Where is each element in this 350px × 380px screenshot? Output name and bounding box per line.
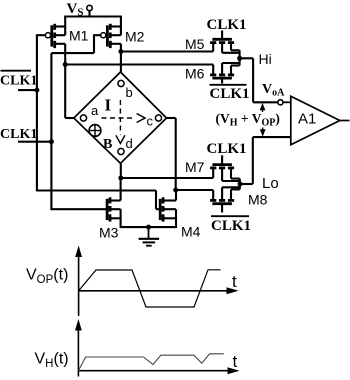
- junction node d / M3 drain: [118, 176, 123, 181]
- current arrow I (dashed cross): [102, 96, 146, 144]
- wire M2 drain to node b: [120, 44, 122, 73]
- transistor M1 (PMOS): [45, 16, 88, 49]
- junction M1 drain / M6 rail: [63, 62, 68, 67]
- wire M2 gate to CLK1 vertical: [51, 34, 100, 210]
- svg-text:Hi: Hi: [259, 51, 272, 67]
- svg-text:B: B: [103, 137, 112, 152]
- wire M1 gate to CLK1bar vertical: [37, 34, 46, 191]
- transistor M2 (PMOS): [101, 16, 145, 49]
- svg-text:t: t: [232, 272, 237, 291]
- svg-text:c: c: [147, 114, 154, 129]
- waveform VOP: [79, 270, 221, 307]
- svg-text:M7: M7: [185, 159, 205, 175]
- waveform VH: [78, 354, 223, 371]
- transistor M4 (NMOS): [160, 190, 200, 240]
- node a: [80, 103, 99, 121]
- transistor M6 (pass switch): [185, 58, 240, 83]
- svg-text:CLK1: CLK1: [207, 141, 247, 157]
- transistor M8 (pass switch): [210, 184, 268, 213]
- transistor M7 (pass switch): [185, 155, 240, 184]
- power terminal VS: [67, 1, 93, 19]
- wire M3/M4 source rail: [121, 226, 176, 228]
- svg-text:b: b: [126, 85, 133, 100]
- wire rail to M7 source: [121, 177, 213, 179]
- node b: [118, 80, 133, 100]
- svg-text:M3: M3: [99, 225, 119, 241]
- svg-text:CLK1: CLK1: [0, 74, 37, 89]
- wire M8 source rail: [176, 189, 214, 191]
- svg-text:a: a: [91, 103, 99, 118]
- B field symbol: [89, 125, 112, 152]
- wire node d down: [120, 163, 122, 178]
- junction node c / M4 drain / M8 source: [173, 188, 178, 193]
- junction CLK1bar stub: [34, 88, 39, 93]
- wire node c to Lo-side junction: [167, 118, 176, 190]
- hall plate (diamond): [74, 72, 167, 163]
- svg-text:d: d: [126, 136, 133, 151]
- wire rail to M6 source: [65, 63, 213, 65]
- svg-text:M5: M5: [185, 36, 205, 52]
- plot VH(t) axes: [75, 319, 240, 377]
- junction Hi node: [237, 56, 242, 61]
- node c: [147, 114, 162, 129]
- svg-text:M2: M2: [125, 29, 145, 45]
- label CLK1bar (top left): [0, 71, 37, 90]
- wire rail to M5 source: [121, 50, 213, 52]
- transistor M3 (NMOS): [99, 178, 121, 241]
- label CLK1bar (M6 gate): [210, 85, 250, 102]
- wire M1 drain to node a: [65, 44, 74, 118]
- svg-text:I: I: [105, 96, 112, 115]
- svg-text:M6: M6: [185, 66, 205, 82]
- ground: [139, 227, 160, 246]
- label CLK1 (left): [0, 127, 51, 142]
- junction M2 drain / M5 rail: [118, 49, 123, 54]
- svg-text:t: t: [233, 352, 238, 371]
- wire amplifier lower input to Lo: [240, 137, 291, 184]
- wire Hi to amplifier input: [240, 58, 278, 102]
- svg-text:CLK1: CLK1: [211, 218, 251, 234]
- label CLK1bar (M8 gate): [211, 216, 251, 234]
- svg-text:CLK1: CLK1: [0, 127, 37, 142]
- junction Lo node: [238, 182, 243, 187]
- wire M4 gate from CLK1bar rail: [37, 191, 160, 210]
- plot VOP(t) axes: [75, 246, 238, 317]
- svg-text:CLK1: CLK1: [207, 17, 247, 33]
- label (VH + VOP) with arrows: [216, 103, 280, 137]
- transistor M5 (pass switch): [185, 31, 240, 59]
- junction ground: [146, 225, 151, 230]
- svg-text:M1: M1: [69, 28, 89, 44]
- svg-text:Lo: Lo: [262, 175, 279, 192]
- junction CLK1 stub: [49, 139, 54, 144]
- node d: [118, 136, 133, 155]
- wire M3 gate lead: [51, 208, 107, 210]
- svg-text:M8: M8: [248, 192, 268, 208]
- terminal VoA: [262, 82, 291, 105]
- svg-text:A1: A1: [298, 111, 316, 128]
- svg-text:CLK1: CLK1: [210, 86, 250, 102]
- op-amp A1: [291, 96, 350, 145]
- wire VS supply rail: [64, 15, 122, 17]
- svg-text:M4: M4: [181, 224, 201, 240]
